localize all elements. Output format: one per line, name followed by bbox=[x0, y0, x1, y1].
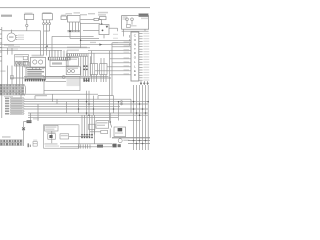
relay coil b bbox=[39, 60, 43, 64]
stub under C bbox=[103, 35, 105, 39]
controller right pin 9 bbox=[139, 53, 143, 55]
wire to fuse bbox=[81, 18, 95, 20]
bus y137.8 bbox=[112, 137, 150, 139]
vertical x23.5 bottom bbox=[23, 122, 25, 147]
label row right inside bbox=[141, 18, 148, 20]
verticals 80-90 bbox=[80, 56, 82, 76]
box K corner bbox=[35, 95, 47, 97]
box L outline bbox=[44, 77, 80, 91]
right junction dots bbox=[133, 140, 135, 142]
relay cluster in P bbox=[48, 134, 56, 140]
coil box J2 bbox=[100, 64, 107, 75]
wire y143.8 bbox=[60, 143, 112, 145]
enclosure drop a bbox=[123, 29, 125, 36]
pin wire B3-2 bbox=[72, 22, 74, 32]
brace T1 bbox=[24, 84, 27, 95]
controller right pin 15 bbox=[139, 69, 143, 71]
bus wire A y99.2 bbox=[24, 98, 131, 100]
vertical x52.5 bbox=[52, 94, 54, 101]
vertical x118.5 bbox=[118, 102, 120, 121]
coil box J1 bbox=[90, 64, 97, 75]
controller right pin 3 bbox=[139, 38, 143, 40]
pin circle a bbox=[16, 62, 18, 64]
faint text bottom bbox=[45, 145, 59, 146]
controller right pin 19 bbox=[139, 79, 143, 81]
relay box L1 bbox=[15, 55, 29, 66]
controller right pin 16 bbox=[139, 72, 143, 74]
controller drops bbox=[140, 81, 142, 85]
controller right pin 10 bbox=[139, 56, 143, 58]
fuse block E bbox=[26, 68, 46, 80]
wire y44.6 bbox=[0, 44, 131, 46]
pin wire B2-2 bbox=[46, 20, 48, 23]
controller right pin 11 bbox=[139, 59, 143, 61]
fuse block text rows bbox=[27, 69, 44, 79]
label box in P bbox=[45, 125, 58, 131]
connector bar F bbox=[48, 57, 70, 60]
controller left pin 6 bbox=[112, 62, 131, 64]
wire label table T2 bbox=[5, 98, 24, 115]
tiny table bottom bbox=[33, 142, 37, 147]
pin wire B2-1 bbox=[43, 20, 45, 23]
controller right pin 2 bbox=[139, 35, 143, 37]
dark box bottom mid bbox=[97, 145, 103, 148]
fuse block connector strip bbox=[25, 79, 26, 82]
wire drop x43.6 bbox=[43, 31, 45, 56]
stub J1 a bbox=[91, 51, 93, 64]
ignition labels bbox=[18, 35, 24, 36]
diode box B2a bbox=[61, 16, 66, 20]
pin wire B3-3 bbox=[75, 22, 77, 32]
controller right pin 12 bbox=[139, 61, 143, 63]
wire B1 to bus bbox=[26, 27, 28, 31]
connector table T1 bbox=[0, 84, 24, 95]
wire y146.8 bbox=[60, 146, 112, 148]
pin jog B2 bbox=[44, 30, 50, 32]
label in box L bbox=[67, 79, 80, 87]
pins under J bbox=[91, 75, 93, 82]
tail lamp bbox=[118, 139, 122, 143]
controller right pin 14 bbox=[139, 66, 143, 68]
relay B1 with label bbox=[24, 13, 33, 20]
triangle on wire bbox=[99, 43, 102, 45]
bus wire D y106.4 bbox=[24, 105, 120, 107]
wire link down bbox=[101, 20, 103, 24]
verticals x82-94 bbox=[81, 115, 83, 134]
small component left bbox=[11, 75, 14, 79]
wire labels before controller bbox=[113, 34, 118, 35]
label in N bbox=[115, 132, 123, 133]
bus junction dots mid bbox=[86, 101, 88, 103]
svg-text:L: L bbox=[134, 64, 136, 68]
dark bars under bbox=[83, 78, 84, 82]
bus wire y78.0 bbox=[10, 77, 111, 79]
wire y35.3 bbox=[52, 35, 94, 37]
label x22 y118 bbox=[33, 118, 39, 119]
wire x80 down bbox=[80, 22, 82, 47]
right verticals bbox=[133, 85, 135, 150]
connector joint on B1 wire bbox=[26, 24, 28, 26]
pins under L3 bbox=[32, 67, 34, 70]
fusible link label bbox=[98, 12, 108, 14]
junction dot B3 bar bbox=[69, 30, 71, 32]
bus wire E y109.0 bbox=[24, 108, 148, 110]
controller left pin 2 bbox=[112, 46, 131, 48]
connector table T3 bbox=[0, 140, 22, 146]
controller right pin 4 bbox=[139, 40, 143, 42]
controller left pin 3 bbox=[88, 50, 131, 52]
vertical x89 bbox=[88, 91, 90, 115]
connector dots rows bbox=[81, 134, 83, 136]
controller drop dots bbox=[140, 82, 142, 84]
dark cell in N bbox=[118, 128, 123, 131]
vertical x93.5 bbox=[93, 96, 95, 116]
svg-text:E: E bbox=[134, 69, 136, 73]
label on y44 wire bbox=[90, 42, 96, 43]
wire x70 jog bbox=[69, 32, 71, 39]
left border line bbox=[1, 27, 3, 118]
long verticals x109-112 bbox=[109, 51, 111, 121]
wire y95.3 bbox=[21, 93, 98, 95]
controller left pin 8 bbox=[95, 70, 131, 72]
box corner right bbox=[98, 95, 114, 97]
stub J2 a bbox=[100, 58, 102, 64]
controller left pin 5 bbox=[110, 58, 131, 60]
meter text block bbox=[123, 16, 128, 17]
wire drop x12 bbox=[11, 48, 13, 55]
label bottom-left bbox=[2, 136, 11, 138]
wire L corner drop bbox=[43, 91, 45, 95]
switch S2 bbox=[109, 113, 111, 121]
label LF bbox=[28, 143, 29, 147]
inner cell L1 bbox=[23, 61, 27, 65]
junction dot x80 bbox=[80, 40, 82, 42]
bus junction dots right bbox=[133, 108, 135, 110]
ecu box M2 bbox=[96, 121, 109, 129]
controller right pin 18 bbox=[139, 77, 143, 79]
stub wire under fuse bbox=[80, 23, 100, 25]
relay coil a bbox=[33, 60, 37, 64]
L1 bottom cells bbox=[16, 62, 19, 65]
text rows above H bbox=[67, 47, 87, 49]
wire drop x7.5 bbox=[7, 48, 9, 55]
gauge box in enclosure bbox=[127, 24, 131, 27]
ignition terminals bbox=[16, 34, 18, 36]
arrow mark F bbox=[45, 46, 48, 48]
wire drop x46.6 bbox=[46, 31, 48, 56]
box Q in P bbox=[60, 134, 69, 139]
stub J1 b bbox=[93, 53, 95, 63]
junction box C bbox=[99, 25, 109, 35]
box G under F bbox=[50, 60, 68, 66]
wire C to enclosure bbox=[109, 27, 118, 29]
meter enclosure bbox=[122, 16, 149, 30]
vertical x94.5 down bbox=[94, 129, 96, 144]
pin wire B2-3 bbox=[49, 20, 51, 23]
svg-text:T: T bbox=[134, 47, 136, 51]
wire label above2 bbox=[8, 46, 20, 47]
connector circles on bus bbox=[121, 101, 123, 103]
vertical x57 bbox=[56, 99, 58, 104]
right horiz y120.5 bbox=[128, 120, 141, 122]
label under ignition bbox=[4, 44, 14, 46]
vertical x30.5 bbox=[30, 113, 32, 120]
ignition switch M bbox=[7, 33, 16, 42]
label harness title bbox=[1, 15, 12, 17]
wire from E right bbox=[46, 80, 66, 82]
controller right pin 8 bbox=[139, 51, 143, 53]
relay box L3 bbox=[30, 57, 45, 67]
dark box bottom-left bbox=[27, 120, 32, 123]
stub J2 b bbox=[103, 58, 105, 64]
controller left pin 7 bbox=[107, 66, 131, 68]
switch B2 with label bbox=[42, 12, 52, 20]
wire y40.3 bbox=[81, 39, 131, 41]
box N bbox=[114, 127, 126, 137]
controller box U1 bbox=[131, 32, 139, 81]
controller right pin 6 bbox=[139, 46, 143, 48]
hatched block top right bbox=[139, 13, 149, 17]
wire label above bbox=[8, 49, 18, 50]
vertical x86.5 bbox=[86, 91, 88, 115]
wire drop x40.6 bbox=[40, 31, 42, 56]
junction dots mid bbox=[83, 65, 85, 67]
vertical x66.5 bbox=[66, 102, 68, 113]
wire drop x7.5 long bbox=[7, 66, 9, 85]
small box y131 bbox=[101, 130, 108, 133]
fusible link box bbox=[100, 17, 107, 20]
bus wire H y117.3 bbox=[28, 116, 118, 118]
bus wire y76.3 bbox=[24, 75, 109, 77]
joint on bus bbox=[62, 76, 65, 79]
bus wire F y113.0 bbox=[28, 112, 148, 114]
wire drop x12 long bbox=[11, 66, 13, 85]
enclosure drop b bbox=[144, 29, 146, 31]
wire y30.4 bbox=[83, 29, 99, 31]
controller left pin 4 bbox=[88, 52, 131, 54]
wire drop x22.4 bbox=[21, 66, 23, 84]
bus wire G y115.2 bbox=[28, 114, 148, 116]
controller left pin 9 bbox=[110, 74, 131, 76]
vertical x38 bbox=[37, 104, 39, 121]
controller right pin 5 bbox=[139, 43, 143, 45]
wire from fuse bend down bbox=[99, 18, 102, 20]
bus wire B y101.6 bbox=[24, 101, 148, 103]
wire bus y50.3 bbox=[0, 49, 62, 51]
bus wire C y104.0 bbox=[24, 103, 148, 105]
ground symbols bbox=[84, 77, 86, 81]
label above fuse bbox=[80, 14, 87, 15]
controller left pin 1 bbox=[112, 42, 131, 44]
controller right pin 7 bbox=[139, 48, 143, 50]
indicator lamp L1 bbox=[126, 18, 129, 21]
controller right pin 1 bbox=[139, 33, 143, 35]
page top rule bbox=[0, 7, 150, 9]
combination switch B3 bbox=[66, 12, 81, 22]
pin wire B3-1 bbox=[69, 22, 71, 32]
box P outline bbox=[44, 125, 80, 148]
dark bits bottom right bbox=[112, 144, 116, 148]
label bottom in P bbox=[45, 143, 58, 144]
connector bar H bbox=[67, 54, 88, 57]
small box M3 bbox=[89, 124, 95, 129]
wire bus y47.8 bbox=[0, 47, 90, 49]
controller right pin 17 bbox=[139, 74, 143, 76]
ignition stem bbox=[10, 30, 12, 33]
box I bbox=[66, 58, 78, 66]
connector bar under B3 bbox=[67, 30, 80, 32]
svg-text:L: L bbox=[134, 60, 136, 64]
pins above F bbox=[48, 50, 50, 57]
box I2 bbox=[66, 67, 80, 75]
controller right pin 13 bbox=[139, 64, 143, 66]
T2 to bus stubs bbox=[23, 97, 26, 99]
wire x52 down bbox=[51, 36, 53, 57]
triangle marker in C bbox=[106, 26, 109, 28]
right horiz y143.5 bbox=[128, 143, 150, 145]
fuse F1 bbox=[94, 18, 99, 20]
right horiz y140.5 bbox=[128, 140, 150, 142]
connector marks right wires bbox=[128, 35, 131, 37]
pin wire B3-4 bbox=[78, 22, 80, 32]
wire P right bbox=[69, 135, 90, 137]
fuse block label box bbox=[24, 62, 30, 67]
vertical x78.5 bbox=[78, 99, 80, 113]
svg-text:N: N bbox=[134, 42, 136, 46]
label left mid bbox=[1, 70, 6, 71]
coil in I2 bbox=[68, 70, 71, 73]
wire T2 feed bbox=[20, 94, 22, 97]
wire B1 down bbox=[26, 19, 28, 24]
inner cell L1b bbox=[23, 56, 27, 59]
vertical x131 bbox=[130, 99, 132, 113]
indicator lamp L2 bbox=[131, 18, 134, 21]
cross marker bbox=[22, 127, 25, 130]
text between tables bbox=[4, 96, 13, 97]
wire y131.5 bbox=[90, 131, 101, 133]
wire under enclosure bbox=[122, 30, 149, 32]
pin circle b bbox=[19, 62, 21, 64]
pin ticks bottom bbox=[78, 144, 80, 148]
